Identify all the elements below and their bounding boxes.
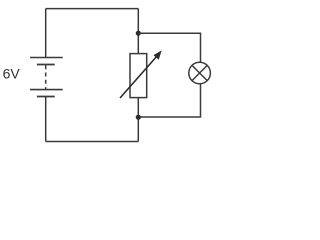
node junction top [136, 31, 141, 36]
wire left top (battery positive lead) [45, 9, 47, 58]
svg-text:6V: 6V [3, 66, 21, 82]
wire right vertical upper (top wire corner down to resistor) [137, 9, 139, 54]
variable resistor [120, 50, 162, 98]
wire branch bottom from lamp [138, 83, 200, 117]
wire top from battery to resistor branch [46, 8, 139, 10]
wire resistor bottom lead [137, 98, 139, 142]
wire left bottom (battery negative lead) [45, 97, 47, 142]
wire branch top to lamp [138, 33, 200, 63]
lamp [189, 62, 211, 84]
wire bottom from battery to resistor branch [46, 141, 139, 143]
battery 6V [30, 58, 63, 97]
node junction bottom [136, 115, 141, 120]
